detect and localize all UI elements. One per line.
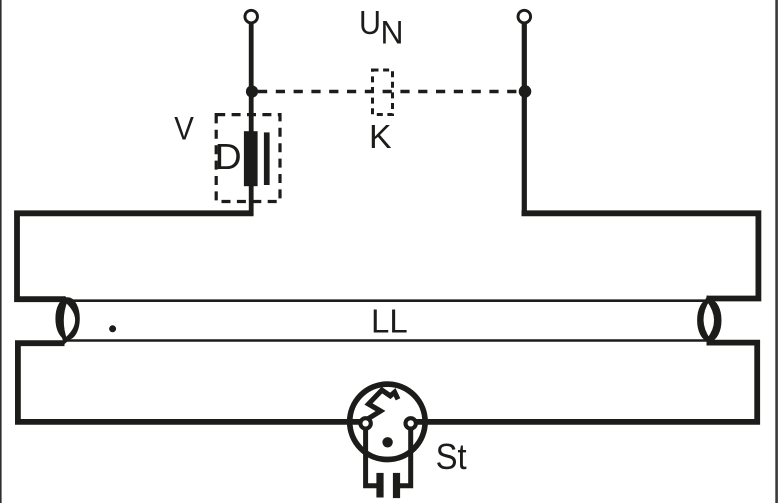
wire (right supply drop)	[522, 23, 527, 215]
wire (left supply drop)	[249, 23, 254, 133]
wire (starter left lead)	[366, 426, 381, 486]
inductor D (core bar)	[264, 132, 270, 185]
svg-text:LL: LL	[371, 302, 408, 339]
starter terminal (left ring)	[360, 418, 370, 428]
node (left junction)	[246, 85, 258, 97]
wire (upper-left frame run)	[17, 213, 254, 299]
wire (upper-right frame run)	[522, 213, 759, 298]
svg-text:V: V	[174, 110, 194, 146]
electrode (left filament lens)	[62, 300, 78, 341]
svg-text:St: St	[436, 437, 467, 477]
starter bimetal electrode	[367, 390, 398, 419]
lamp end cap (left ring)	[58, 300, 78, 338]
ballast V (dashed enclosure box)	[216, 115, 280, 202]
starter pin (left prong)	[376, 473, 383, 498]
fluorescent lamp LL (tube outline)	[64, 301, 711, 341]
electrode (right filament lens)	[701, 299, 716, 340]
starter pin (right prong)	[393, 473, 400, 498]
lamp end cap (right ring)	[699, 301, 719, 339]
starter terminal (right ring)	[406, 418, 416, 428]
capacitor K (optional compensation, dashed outline)	[373, 70, 393, 115]
inductor D (choke winding bar)	[244, 131, 258, 186]
wire (choke to frame)	[249, 184, 254, 216]
wire (dashed compensation branch)	[258, 90, 519, 94]
svg-text:D: D	[215, 136, 242, 177]
wire (lower-left frame run)	[18, 343, 360, 422]
svg-text:K: K	[369, 119, 392, 156]
terminal (right supply)	[518, 10, 531, 23]
starter center dot	[382, 437, 392, 447]
lamp dot	[109, 325, 116, 332]
wire (lower-right frame run)	[416, 343, 757, 422]
terminal (left supply)	[245, 10, 258, 23]
svg-text:N: N	[381, 14, 404, 50]
node (right junction)	[519, 85, 532, 98]
starter St (body circle)	[350, 384, 425, 459]
svg-text:U: U	[359, 4, 381, 41]
wire (starter right lead)	[395, 426, 411, 486]
